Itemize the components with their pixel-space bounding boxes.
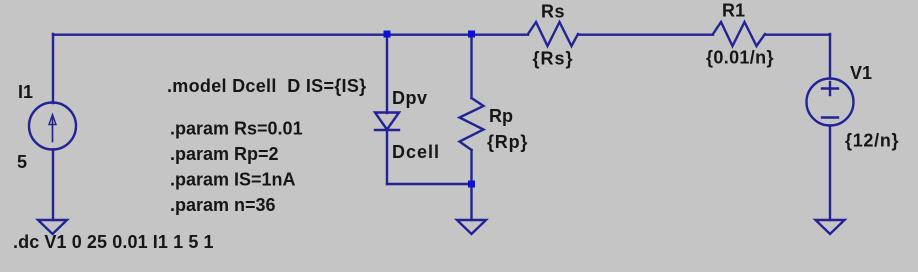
wire: right branch upper (corner to V1) (829, 34, 831, 79)
resistor Rs (horizontal zigzag) (528, 22, 578, 46)
svg-text:{Rs}: {Rs} (533, 49, 574, 69)
ground (under V1) (816, 220, 845, 234)
wire: left branch upper (top wire to I1) (52, 34, 54, 103)
wire: diode branch lower (Dpv to bottom wire) (386, 130, 388, 184)
junction node (top wire / Rp branch) (468, 31, 475, 38)
junction node (bottom wire / Rp branch) (468, 181, 475, 188)
svg-text:Rs: Rs (541, 1, 565, 21)
voltage source V1 (807, 79, 854, 126)
svg-text:{0.01/n}: {0.01/n} (706, 48, 774, 68)
svg-text:.model Dcell D IS={IS}: .model Dcell D IS={IS} (167, 76, 366, 96)
junction node (top wire / diode branch) (384, 31, 391, 38)
svg-text:{Rp}: {Rp} (487, 132, 528, 152)
diode U Dpv (model Dcell) (375, 113, 399, 131)
svg-text:{12/n}: {12/n} (845, 131, 899, 151)
wire bottom (diode bottom to Rp bottom) (387, 183, 472, 185)
resistor R1 (horizontal zigzag) (713, 22, 765, 46)
wire top: I1 to Rs (53, 34, 528, 36)
current source I1 (29, 103, 76, 150)
wire: left branch lower (I1 to ground) (52, 150, 54, 221)
wire top: Rs to R1 (578, 34, 713, 36)
svg-text:R1: R1 (722, 1, 745, 21)
wire: right branch lower (V1 to ground) (829, 126, 831, 221)
svg-text:.param Rp=2: .param Rp=2 (170, 144, 279, 164)
svg-text:Rp: Rp (489, 106, 513, 126)
ground (under Rp) (457, 220, 486, 234)
svg-text:.dc V1 0 25 0.01 I1 1 5 1: .dc V1 0 25 0.01 I1 1 5 1 (13, 232, 214, 252)
svg-text:.param n=36: .param n=36 (170, 195, 276, 215)
svg-text:V1: V1 (850, 63, 872, 83)
wire: Rp branch lower (Rp to ground) (470, 150, 472, 220)
svg-text:.param Rs=0.01: .param Rs=0.01 (170, 119, 303, 139)
svg-text:Dcell: Dcell (392, 142, 440, 162)
wire: diode branch upper (junction to Dpv) (386, 34, 388, 113)
svg-text:.param IS=1nA: .param IS=1nA (170, 170, 296, 190)
svg-text:5: 5 (17, 152, 27, 172)
wire: Rp branch upper (junction to Rp) (470, 34, 472, 98)
svg-text:I1: I1 (18, 82, 33, 102)
svg-text:Dpv: Dpv (392, 88, 428, 108)
ground (under I1) (38, 220, 67, 234)
wire top: R1 to V1 corner (765, 34, 830, 36)
resistor Rp (vertical zigzag) (460, 98, 484, 150)
